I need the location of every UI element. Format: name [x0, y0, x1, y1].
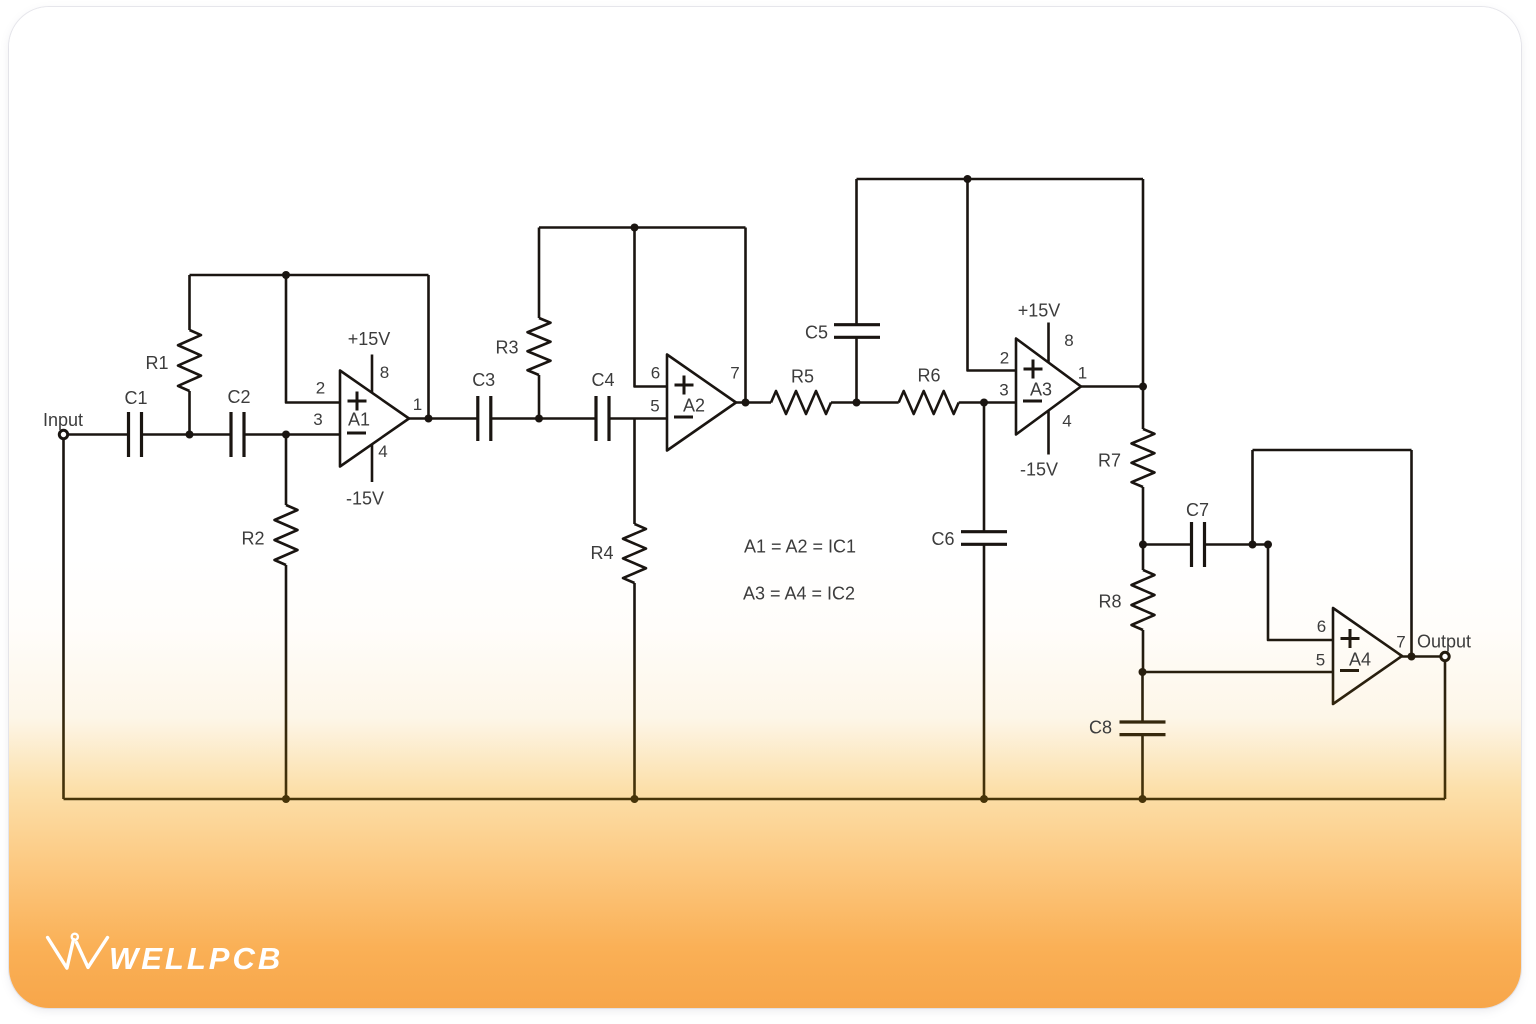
- wire C4 to A2 pin5: [609, 417, 667, 420]
- junction node A2 feedback branch: [631, 224, 639, 232]
- output terminal: [1441, 652, 1449, 660]
- svg-text:5: 5: [1316, 651, 1325, 670]
- label pin 3 A3: [999, 381, 1008, 400]
- svg-text:5: 5: [650, 397, 659, 416]
- capacitor C8: [1120, 672, 1166, 799]
- op-amp A2: [667, 355, 736, 451]
- label Output: [1417, 632, 1471, 652]
- junction node bus C8: [1139, 795, 1147, 803]
- wire input down: [62, 438, 65, 799]
- svg-text:-15V: -15V: [346, 489, 384, 509]
- label pin 4 A3: [1062, 412, 1071, 431]
- label A2: [683, 396, 705, 416]
- svg-text:+15V: +15V: [348, 329, 391, 349]
- label C2: [227, 387, 250, 407]
- power -15V stub A3: [1047, 411, 1050, 455]
- wire C1 to C2: [142, 433, 232, 436]
- wire output down: [1444, 660, 1447, 799]
- wire feedback right vertical: [427, 275, 430, 419]
- label C4: [591, 370, 614, 390]
- label Input: [43, 410, 83, 430]
- wire R5 to R6: [831, 401, 899, 404]
- svg-text:8: 8: [380, 363, 389, 382]
- wire branch to A3 pin2: [968, 179, 1017, 371]
- svg-text:R8: R8: [1098, 592, 1121, 612]
- capacitor C3: [478, 396, 491, 441]
- note A3=A4=IC2: [743, 584, 855, 604]
- label pin 7 A2: [730, 364, 739, 383]
- svg-text:3: 3: [313, 410, 322, 429]
- svg-text:R1: R1: [145, 353, 168, 373]
- junction node C7/R7/R8: [1139, 541, 1147, 549]
- logo W icon left V: [48, 938, 74, 969]
- svg-text:A1: A1: [348, 410, 370, 430]
- label pin 4 A1: [378, 442, 387, 461]
- svg-text:C2: C2: [227, 387, 250, 407]
- label pin 1: [413, 395, 422, 414]
- label A1: [348, 410, 370, 430]
- op-amp A4: [1333, 608, 1402, 704]
- svg-text:R2: R2: [241, 529, 264, 549]
- wire C7 to A4 loop: [1205, 543, 1269, 546]
- svg-text:+15V: +15V: [1018, 301, 1061, 321]
- svg-text:4: 4: [378, 442, 387, 461]
- wire C2 to A1 pin3: [244, 433, 340, 436]
- wire R8 to A4 pin5: [1143, 671, 1334, 674]
- WellPCB logo text: [109, 943, 283, 974]
- label pin 1 A3: [1078, 364, 1087, 383]
- label pin 5 A4: [1316, 651, 1325, 670]
- resistor R6: [899, 391, 959, 414]
- label -15V A3: [1020, 460, 1058, 480]
- svg-text:1: 1: [413, 395, 422, 414]
- junction node feedback/pin2 branch: [282, 271, 290, 279]
- wire A2 output to R5: [736, 401, 771, 404]
- resistor R7: [1132, 387, 1155, 545]
- junction node R8 bottom: [1139, 668, 1147, 676]
- junction node A2 output: [742, 399, 750, 407]
- wire A1 output: [409, 417, 478, 420]
- svg-text:R4: R4: [590, 543, 613, 563]
- svg-text:C8: C8: [1089, 718, 1112, 738]
- capacitor C6: [961, 403, 1007, 800]
- junction node R3 bottom: [535, 415, 543, 423]
- svg-text:2: 2: [316, 379, 325, 398]
- label +15V A1: [348, 329, 391, 349]
- label R2: [241, 529, 264, 549]
- svg-text:7: 7: [730, 364, 739, 383]
- wire A2 feedback top: [539, 226, 746, 229]
- svg-text:C7: C7: [1186, 500, 1209, 520]
- label C7: [1186, 500, 1209, 520]
- resistor R2: [275, 435, 298, 800]
- label R4: [590, 543, 613, 563]
- power +15V stub A1: [371, 355, 374, 394]
- wire A3 output: [1081, 385, 1143, 388]
- op-amp A3: [1016, 339, 1081, 435]
- resistor R1: [178, 275, 201, 435]
- wire A2 feedback right vertical: [744, 228, 747, 403]
- label R7: [1098, 451, 1121, 471]
- label C1: [124, 388, 147, 408]
- junction node C5 branch: [853, 399, 861, 407]
- svg-text:A2: A2: [683, 396, 705, 416]
- wire C3 to C4: [491, 417, 596, 420]
- svg-text:4: 4: [1062, 412, 1071, 431]
- junction node A3 feedback branch: [964, 175, 972, 183]
- svg-text:C1: C1: [124, 388, 147, 408]
- svg-text:R5: R5: [791, 367, 814, 387]
- svg-text:R3: R3: [495, 338, 518, 358]
- label pin 8 A1: [380, 363, 389, 382]
- svg-text:R6: R6: [917, 366, 940, 386]
- label pin 3: [313, 410, 322, 429]
- label A3: [1030, 380, 1052, 400]
- junction node R1 bottom: [186, 431, 194, 439]
- label pin 6 A2: [651, 364, 660, 383]
- svg-text:Output: Output: [1417, 632, 1471, 652]
- svg-text:A1 = A2 = IC1: A1 = A2 = IC1: [744, 537, 856, 557]
- svg-text:C4: C4: [591, 370, 614, 390]
- svg-text:2: 2: [1000, 349, 1009, 368]
- svg-text:6: 6: [1317, 617, 1326, 636]
- label A4: [1349, 650, 1371, 670]
- wire A1 feedback top: [190, 274, 429, 277]
- label pin 7 A4: [1396, 633, 1405, 652]
- WellPCB logo mark: [42, 928, 117, 978]
- junction node C6 branch: [980, 399, 988, 407]
- wire R6 to A3 pin3: [959, 401, 1016, 404]
- wire A3 feedback vertical: [1142, 179, 1145, 387]
- svg-text:C5: C5: [805, 323, 828, 343]
- note A1=A2=IC1: [744, 537, 856, 557]
- resistor R8: [1132, 545, 1155, 673]
- capacitor C4: [596, 396, 609, 441]
- capacitor C7: [1192, 522, 1205, 567]
- label C3: [472, 370, 495, 390]
- capacitor C1: [129, 412, 142, 457]
- label R8: [1098, 592, 1121, 612]
- junction node A1 pin3: [282, 431, 290, 439]
- logo W icon circle: [72, 934, 78, 940]
- label +15V A3: [1018, 301, 1061, 321]
- svg-text:A4: A4: [1349, 650, 1371, 670]
- capacitor C2: [231, 412, 244, 457]
- svg-text:C3: C3: [472, 370, 495, 390]
- power -15V stub A1: [371, 445, 374, 483]
- junction node bus R2: [282, 795, 290, 803]
- wire branch to A2 pin6: [635, 228, 668, 387]
- svg-text:A3 = A4 = IC2: A3 = A4 = IC2: [743, 584, 855, 604]
- junction node bus C6: [980, 795, 988, 803]
- junction node bus R4: [631, 795, 639, 803]
- label C5: [805, 323, 828, 343]
- svg-text:6: 6: [651, 364, 660, 383]
- label pin 5 A2: [650, 397, 659, 416]
- wire A4 output: [1402, 655, 1441, 658]
- logo W icon right V: [77, 938, 108, 968]
- input terminal: [59, 430, 67, 438]
- wire branch to A1 pin2: [286, 275, 340, 403]
- label R6: [917, 366, 940, 386]
- junction node A4 output: [1408, 653, 1416, 661]
- svg-text:R7: R7: [1098, 451, 1121, 471]
- junction node A4 feedback corner: [1249, 541, 1257, 549]
- wire A4 feedback right vertical: [1410, 450, 1413, 657]
- svg-text:1: 1: [1078, 364, 1087, 383]
- junction node A1 output: [425, 415, 433, 423]
- wire branch to A4 pin6: [1268, 545, 1333, 641]
- svg-text:Input: Input: [43, 410, 83, 430]
- svg-text:7: 7: [1396, 633, 1405, 652]
- label pin 2: [316, 379, 325, 398]
- label R1: [145, 353, 168, 373]
- wire A4 feedback top: [1253, 449, 1412, 452]
- label pin 6 A4: [1317, 617, 1326, 636]
- label -15V A1: [346, 489, 384, 509]
- junction node A3 output: [1139, 383, 1147, 391]
- wire R7 node to C7: [1143, 543, 1192, 546]
- label C6: [931, 529, 954, 549]
- svg-text:C6: C6: [931, 529, 954, 549]
- wire input to C1: [67, 433, 128, 436]
- label R3: [495, 338, 518, 358]
- ground bus wire: [64, 798, 1446, 801]
- resistor R4: [623, 419, 646, 800]
- op-amp A1: [340, 371, 409, 467]
- junction node A4 pin6 branch: [1264, 541, 1272, 549]
- wire A3 feedback top: [857, 178, 1144, 181]
- svg-text:-15V: -15V: [1020, 460, 1058, 480]
- resistor R5: [771, 391, 831, 414]
- label R5: [791, 367, 814, 387]
- power +15V stub A3: [1047, 323, 1050, 364]
- resistor R3: [528, 228, 551, 419]
- label pin 8 A3: [1064, 331, 1073, 350]
- label pin 2 A3: [1000, 349, 1009, 368]
- label C8: [1089, 718, 1112, 738]
- svg-text:3: 3: [999, 381, 1008, 400]
- svg-text:A3: A3: [1030, 380, 1052, 400]
- svg-text:8: 8: [1064, 331, 1073, 350]
- wire A4 feedback left vertical: [1251, 450, 1254, 545]
- capacitor C5: [834, 179, 880, 403]
